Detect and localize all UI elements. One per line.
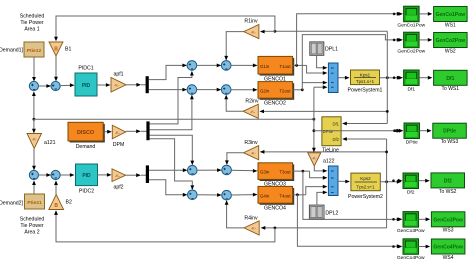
wire Add2 to PowerSystem2 xyxy=(338,180,350,184)
wire Df2 net xyxy=(54,137,401,242)
svg-text:Tie Power: Tie Power xyxy=(20,20,43,26)
gain a122 (down) xyxy=(308,153,321,166)
sum S3b xyxy=(221,85,231,95)
scope GenCo2Pow xyxy=(397,32,425,54)
label DPL2 xyxy=(325,210,338,216)
goto ToWS1 Df1 xyxy=(434,70,468,92)
sum S1b xyxy=(51,81,60,90)
wire S4a to S4b xyxy=(39,173,52,177)
svg-text:G3in: G3in xyxy=(260,170,270,175)
wire DPtie up into sum1a bottom xyxy=(32,91,36,119)
sum S2a xyxy=(187,61,197,71)
label R4inv xyxy=(244,215,258,221)
sum S2b xyxy=(221,61,231,71)
svg-text:DPtie: DPtie xyxy=(443,129,456,135)
gain R2inv (left) xyxy=(243,104,258,118)
wire DPL1 to Add1 xyxy=(317,55,328,69)
svg-text:B: B xyxy=(54,47,58,53)
gain apf1 xyxy=(111,78,126,93)
svg-text:GenCo3Pow: GenCo3Pow xyxy=(433,217,463,223)
svg-text:G2in: G2in xyxy=(260,88,270,93)
wire T2out net xyxy=(293,81,328,92)
gain DPM xyxy=(112,125,125,139)
wire PIDC1 to apf1 xyxy=(97,83,111,87)
svg-text:Scheduled: Scheduled xyxy=(20,217,45,223)
wire DPM out4 to S6a top xyxy=(150,139,195,190)
svg-text:DPM: DPM xyxy=(113,142,125,148)
wire scope Df2 to goto ToWS2 Df2 xyxy=(419,179,430,183)
svg-text:-K-: -K- xyxy=(115,173,121,178)
svg-text:Area 2: Area 2 xyxy=(24,230,39,236)
label a122 xyxy=(323,158,335,164)
svg-text:Kps2: Kps2 xyxy=(360,176,371,181)
svg-text:Df1: Df1 xyxy=(407,86,415,92)
goto WS2 GenCo2Pow xyxy=(434,33,468,55)
wire S2b to GENCO1 xyxy=(231,64,258,68)
svg-text:Tps2.s+1: Tps2.s+1 xyxy=(356,185,375,190)
svg-text:-K-: -K- xyxy=(115,130,121,135)
wire DISCO to DPM xyxy=(103,130,112,134)
block Ptie21 xyxy=(25,194,45,209)
svg-text:G1in: G1in xyxy=(260,64,270,69)
wire DPM to demuxDPM xyxy=(126,129,147,133)
gain B2 (up) xyxy=(49,195,64,210)
svg-text:R3inv: R3inv xyxy=(244,140,258,146)
svg-text:To WS1: To WS1 xyxy=(442,86,460,92)
svg-text:-K-: -K- xyxy=(250,109,256,114)
svg-text:TieLine: TieLine xyxy=(322,147,339,153)
wire B1 to S1b xyxy=(54,56,58,81)
block GENCO3 xyxy=(258,163,294,181)
svg-text:GenCo4Pow: GenCo4Pow xyxy=(433,245,463,251)
wire Df1 net xyxy=(54,16,401,125)
sum S4b xyxy=(51,170,60,179)
wire R2inv to S3b bottom xyxy=(224,95,243,112)
sum S6b xyxy=(222,190,232,200)
label apf1 xyxy=(113,72,123,78)
label a121 xyxy=(44,140,56,146)
svg-text:GenCo3Pow: GenCo3Pow xyxy=(397,228,425,234)
wire scope GenCo1Pow to goto WS1 GenCo1Pow xyxy=(419,12,432,16)
wire scope GenCo4Pow to goto WS4 GenCo4Pow xyxy=(419,245,431,249)
svg-text:Kps1: Kps1 xyxy=(360,72,371,77)
goto ToWS3 DPtie xyxy=(433,123,467,145)
label R2inv xyxy=(245,99,259,105)
svg-text:apf1: apf1 xyxy=(113,72,123,78)
block GENCO4 xyxy=(258,186,294,204)
gain R3inv (left) xyxy=(244,146,259,160)
svg-text:R4inv: R4inv xyxy=(244,215,258,221)
block PIDC1 xyxy=(75,73,97,96)
label TieLine xyxy=(322,147,339,153)
goto WS1 GenCo1Pow xyxy=(434,7,468,29)
sum S5a xyxy=(188,165,198,175)
sum Add2 xyxy=(328,166,338,196)
wire into scope DPtie xyxy=(393,129,403,133)
svg-text:DPL1: DPL1 xyxy=(325,47,338,53)
wire into scope GenCo1Pow xyxy=(393,12,403,16)
svg-text:To WS3: To WS3 xyxy=(441,139,459,145)
svg-text:Ptie12: Ptie12 xyxy=(27,48,42,54)
label GENCO3 xyxy=(264,181,286,187)
label PIDC2 xyxy=(79,189,94,195)
label B2 xyxy=(66,200,72,206)
wire S5b to GENCO3 xyxy=(231,169,257,173)
block DPL1 xyxy=(310,42,324,55)
wire S1a to S1b xyxy=(39,84,52,88)
svg-text:[Demand2]: [Demand2] xyxy=(0,201,24,207)
block GENCO2 xyxy=(258,82,294,100)
svg-text:GenCo4Pow: GenCo4Pow xyxy=(397,255,425,261)
wire S1b to PIDC1 xyxy=(60,83,74,87)
svg-text:-K-: -K- xyxy=(312,155,318,160)
svg-text:DISCO: DISCO xyxy=(77,130,94,136)
wire a122 to Add2 xyxy=(314,166,327,173)
wire D1 out2 to S3a xyxy=(149,88,187,92)
gain a121 (down) xyxy=(27,134,42,149)
block TieLine xyxy=(322,117,341,146)
svg-text:[Demand1]: [Demand1] xyxy=(0,48,24,54)
block PowerSystem1 xyxy=(351,70,380,85)
text scheduled tie power area 2 xyxy=(20,217,45,236)
wire S3a to S3b xyxy=(197,88,222,92)
svg-text:Tie Power: Tie Power xyxy=(20,223,43,229)
svg-text:R1inv: R1inv xyxy=(244,18,258,24)
wire D2 out1 to S5a xyxy=(149,168,187,172)
svg-text:Demand: Demand xyxy=(76,144,96,150)
wire S2a to S2b xyxy=(197,64,222,68)
svg-text:GenCo2Pow: GenCo2Pow xyxy=(397,49,425,55)
wire S4b to PIDC2 xyxy=(60,173,74,177)
scope Df1 xyxy=(404,70,420,92)
wire into scope GenCo2Pow xyxy=(393,38,403,42)
gain R1inv (left) xyxy=(244,25,259,39)
sum S1a xyxy=(29,81,38,90)
wire R1inv to S2b top xyxy=(224,32,243,61)
wire DPM out2 to S3a bottom xyxy=(150,95,194,130)
label B1 xyxy=(65,47,71,53)
wire S6b to GENCO4 xyxy=(231,193,257,197)
svg-text:-K-: -K- xyxy=(250,151,256,156)
svg-text:apf2: apf2 xyxy=(113,184,123,190)
svg-text:Area 1: Area 1 xyxy=(24,27,39,33)
svg-text:Tps1.s+1: Tps1.s+1 xyxy=(356,79,375,84)
svg-text:T4out: T4out xyxy=(279,193,291,198)
demux D2 xyxy=(146,165,149,183)
svg-text:G4in: G4in xyxy=(260,193,270,198)
wire apf2 to demux2 xyxy=(126,173,146,177)
block PowerSystem2 xyxy=(351,173,380,191)
wire Add1 to PowerSystem1 xyxy=(338,76,350,80)
svg-text:WS3: WS3 xyxy=(443,228,454,234)
gain R4inv (left) xyxy=(244,221,259,235)
block Ptie12 xyxy=(24,42,44,57)
svg-text:DPL2: DPL2 xyxy=(325,210,338,216)
svg-text:-K-: -K- xyxy=(32,137,38,142)
svg-text:B1: B1 xyxy=(65,47,71,53)
label DPL1 xyxy=(325,47,338,53)
wire R3inv to S5b top xyxy=(225,153,244,165)
label DPM xyxy=(113,142,125,148)
label R3inv xyxy=(244,140,258,146)
demux DDPM xyxy=(146,121,149,140)
block GENCO1 xyxy=(258,56,294,75)
goto WS3 GenCo3Pow xyxy=(431,212,465,234)
wire junction down to a121 xyxy=(32,119,36,133)
wire scope Df1 to goto ToWS1 Df1 xyxy=(419,76,432,80)
scope DPtie xyxy=(404,123,420,145)
wire into scope Df1 xyxy=(393,76,403,80)
wire T4out net xyxy=(293,185,402,248)
svg-text:-K-: -K- xyxy=(251,29,257,34)
svg-text:PIDC2: PIDC2 xyxy=(79,189,94,195)
svg-text:-K-: -K- xyxy=(114,83,120,88)
goto WS4 GenCo4Pow xyxy=(431,239,465,261)
svg-text:PowerSystem2: PowerSystem2 xyxy=(348,194,383,200)
svg-text:PID: PID xyxy=(82,173,91,179)
sum S5b xyxy=(222,165,232,175)
svg-text:Df1: Df1 xyxy=(446,76,454,82)
wire a121 to sum S4a xyxy=(32,149,36,171)
wire D1 out1 to S2a xyxy=(149,64,187,80)
label GENCO4 xyxy=(264,205,286,211)
sum S6a xyxy=(188,190,198,200)
svg-text:DPtie: DPtie xyxy=(323,129,334,134)
scope GenCo1Pow xyxy=(397,6,425,28)
node Demand2 tag xyxy=(0,201,24,207)
svg-text:WS2: WS2 xyxy=(445,48,456,54)
wire DPtie out to scope xyxy=(314,129,402,133)
wire GenCo2Pow to scope2 xyxy=(302,35,401,83)
svg-text:PowerSystem1: PowerSystem1 xyxy=(348,88,383,94)
svg-text:T1out: T1out xyxy=(279,64,291,69)
label GENCO1 xyxy=(264,77,286,83)
svg-text:GenCo1Pow: GenCo1Pow xyxy=(397,23,425,29)
label PIDC1 xyxy=(78,66,93,72)
label apf2 xyxy=(113,184,123,190)
gain B1 (down) xyxy=(49,42,63,56)
svg-text:Df2: Df2 xyxy=(444,178,452,184)
wire DPtie long line xyxy=(34,85,328,152)
label GENCO2 xyxy=(264,101,286,107)
wire scope DPtie to goto ToWS3 DPtie xyxy=(420,129,432,133)
wire PIDC2 to apf2 xyxy=(98,173,112,177)
sum Add1 xyxy=(328,63,338,93)
svg-text:PIDC1: PIDC1 xyxy=(78,66,93,72)
svg-text:Scheduled: Scheduled xyxy=(20,14,45,20)
svg-text:WS4: WS4 xyxy=(443,255,454,261)
svg-text:a121: a121 xyxy=(44,140,56,146)
wire DPL2 to Add2 xyxy=(317,191,328,206)
svg-text:GENCO2: GENCO2 xyxy=(264,101,286,107)
svg-text:To WS2: To WS2 xyxy=(439,189,457,195)
wire scope GenCo3Pow to goto WS3 GenCo3Pow xyxy=(419,217,431,221)
node Demand1 tag xyxy=(0,48,24,54)
svg-text:T2out: T2out xyxy=(279,88,291,93)
svg-text:a122: a122 xyxy=(323,158,335,164)
block DISCO xyxy=(68,122,105,142)
svg-text:-K-: -K- xyxy=(251,226,257,231)
wire S3b to GENCO2 xyxy=(231,88,258,92)
label PowerSystem2 xyxy=(348,194,383,200)
scope Df2 xyxy=(403,173,419,195)
svg-text:GenCo2Pow: GenCo2Pow xyxy=(436,38,466,44)
label Demand xyxy=(76,144,96,150)
svg-text:Ptie21: Ptie21 xyxy=(27,200,42,206)
wire apf1 to demux1 xyxy=(126,83,146,87)
svg-text:WS1: WS1 xyxy=(445,22,456,28)
svg-text:B: B xyxy=(54,203,58,209)
svg-text:GENCO4: GENCO4 xyxy=(264,205,286,211)
svg-text:T3out: T3out xyxy=(279,170,291,175)
svg-text:R2inv: R2inv xyxy=(245,99,259,105)
scope GenCo3Pow xyxy=(397,212,425,234)
demux D1 xyxy=(146,76,149,93)
wire S5a to S5b xyxy=(197,168,222,172)
label R1inv xyxy=(244,18,258,24)
goto ToWS2 Df2 xyxy=(431,173,465,195)
svg-text:Df2: Df2 xyxy=(407,189,415,195)
svg-text:PID: PID xyxy=(82,83,91,89)
block PIDC2 xyxy=(76,164,98,186)
wire D2 out2 to S6a xyxy=(149,180,187,197)
wire DPM out3 to S5a top xyxy=(150,135,195,165)
wire DPM out1 to S2a bottom xyxy=(150,71,194,124)
scope GenCo4Pow xyxy=(397,239,425,261)
svg-text:DPtie: DPtie xyxy=(406,139,418,145)
wire Ptie12 to sum1a xyxy=(32,57,36,82)
text scheduled tie power area 1 xyxy=(20,14,45,33)
wire R4inv to S6b bottom xyxy=(225,200,244,228)
wire into scope GenCo4Pow xyxy=(392,245,402,249)
svg-text:B2: B2 xyxy=(66,200,72,206)
sum S3a xyxy=(187,85,197,95)
wire scope GenCo2Pow to goto WS2 GenCo2Pow xyxy=(419,38,432,42)
label PowerSystem1 xyxy=(348,88,383,94)
wire B2 to S4b bottom xyxy=(54,180,58,194)
sum S4a xyxy=(29,170,38,179)
wire T3out net xyxy=(293,170,402,222)
svg-text:GenCo1Pow: GenCo1Pow xyxy=(436,12,466,18)
block DPL2 xyxy=(309,205,324,219)
wire T1out net xyxy=(293,12,402,75)
svg-text:Df2: Df2 xyxy=(332,137,339,142)
junction DPtie left xyxy=(33,118,36,121)
wire S6a to S6b xyxy=(197,193,222,197)
wire into scope GenCo3Pow xyxy=(392,217,402,221)
wire into scope Df2 xyxy=(392,179,402,183)
gain apf2 xyxy=(112,169,126,182)
svg-text:Df1: Df1 xyxy=(332,121,339,126)
wire Ptie21 to S4a bottom xyxy=(32,180,36,194)
